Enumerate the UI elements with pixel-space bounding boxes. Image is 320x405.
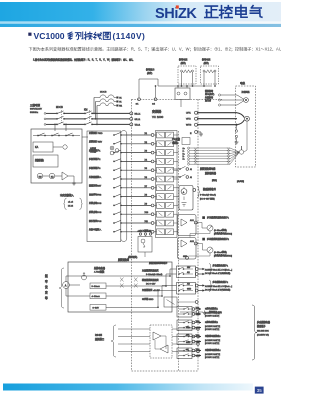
svg-text:0~10mA: 0~10mA [92, 285, 101, 288]
svg-text:等: 等 [45, 296, 48, 300]
svg-text:[DC30V 1A以下]: [DC30V 1A以下] [205, 315, 220, 318]
svg-text:KA: KA [35, 146, 39, 149]
svg-text:V1: V1 [119, 101, 121, 103]
svg-text:率: 率 [45, 280, 48, 284]
svg-text:a1 a2: a1 a2 [68, 201, 74, 203]
svg-text:[DC30V 1A以下]: [DC30V 1A以下] [205, 342, 220, 345]
svg-text:(1140V): (1140V) [113, 31, 146, 41]
svg-text:GND: GND [186, 342, 191, 344]
svg-text:KM: KM [84, 110, 88, 112]
svg-text:变频器: 变频器 [152, 109, 161, 114]
svg-text:AI1: AI1 [187, 271, 190, 274]
svg-text:VC 1000: VC 1000 [152, 115, 164, 119]
svg-text:W/T3: W/T3 [186, 125, 192, 127]
svg-text:A+: A+ [183, 147, 185, 150]
svg-text:下图为本系列变频器标准配置接线示意图。主回路端子：R、S、T: 下图为本系列变频器标准配置接线示意图。主回路端子：R、S、T；输出端子：U、V、… [29, 45, 282, 51]
svg-text:T/L3.1: T/L3.1 [135, 124, 142, 126]
svg-text:RS485: RS485 [95, 335, 103, 337]
svg-text:0~10V: 0~10V [93, 308, 100, 310]
svg-text:+24V PLC COM: +24V PLC COM [138, 230, 152, 232]
svg-text:4~20mA: 4~20mA [92, 295, 101, 298]
svg-text:MCCB: MCCB [56, 107, 63, 109]
svg-text:U1: U1 [119, 97, 121, 99]
svg-text:[AC250V 3A以下]: [AC250V 3A以下] [205, 311, 221, 314]
svg-text:[DC30V 1A以下]: [DC30V 1A以下] [205, 328, 220, 331]
svg-text:MCCB: MCCB [100, 92, 107, 94]
svg-text:定: 定 [45, 291, 48, 295]
svg-text:AO1: AO1 [190, 219, 194, 222]
svg-text:S/L2.1: S/L2.1 [135, 119, 142, 121]
svg-text:660V/1140V: 660V/1140V [30, 109, 42, 111]
svg-text:b1 b2: b1 b2 [68, 205, 74, 207]
svg-text:W1: W1 [119, 105, 122, 107]
svg-text:35: 35 [257, 388, 262, 393]
svg-text:0~10mA(4~20mA): 0~10mA(4~20mA) [146, 273, 163, 276]
svg-text:Z+: Z+ [183, 159, 185, 161]
svg-text:电机: 电机 [240, 81, 246, 85]
svg-text:VC1000: VC1000 [34, 31, 65, 41]
svg-text:[AC250V 3A以下]: [AC250V 3A以下] [205, 339, 221, 342]
svg-text:AI2: AI2 [187, 283, 190, 286]
svg-text:50/60Hz: 50/60Hz [30, 112, 38, 114]
svg-text:设: 设 [45, 285, 48, 289]
svg-text:GND: GND [187, 289, 192, 291]
svg-text:DC 0~10V: DC 0~10V [146, 284, 156, 286]
svg-text:[AC250V 3A以下]: [AC250V 3A以下] [205, 325, 221, 328]
svg-text:0~10mA(4~20mA): 0~10mA(4~20mA) [200, 194, 216, 197]
svg-text:V/T2: V/T2 [186, 119, 191, 121]
svg-text:R/L1.1: R/L1.1 [135, 113, 142, 115]
svg-text:GND: GND [183, 256, 188, 258]
svg-text:B+: B+ [183, 153, 185, 155]
svg-text:U/T1: U/T1 [186, 113, 192, 115]
svg-text:30A 30B 30C: 30A 30B 30C [257, 329, 269, 332]
svg-text:KM: KM [39, 176, 42, 178]
svg-text:[AC250V 3A以下]: [AC250V 3A以下] [205, 353, 221, 356]
svg-text:[DC30V 1A以下]: [DC30V 1A以下] [205, 356, 220, 359]
svg-text:三相电源: 三相电源 [30, 103, 41, 107]
svg-text:(AC250V 3A): (AC250V 3A) [257, 334, 269, 337]
svg-text:频: 频 [45, 274, 48, 278]
svg-text:AO2: AO2 [190, 240, 194, 243]
